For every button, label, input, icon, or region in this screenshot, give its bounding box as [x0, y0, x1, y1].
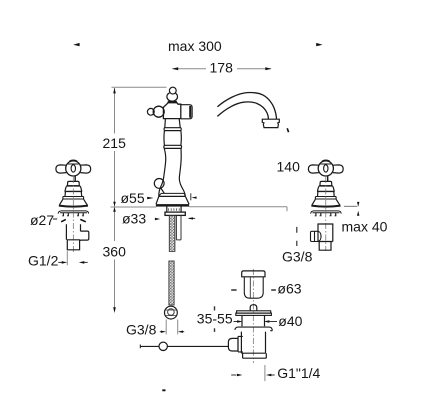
DRAIN: flange bottom plate — [236, 313, 272, 315]
MIXER: bell top — [159, 195, 186, 197]
right valve stem — [327, 176, 329, 181]
right valve bell base bar — [311, 206, 340, 207]
right valve hub — [318, 161, 333, 176]
RIGHT VALVE — [308, 160, 343, 216]
right valve top arm dome — [320, 160, 331, 164]
MIXER: taper below handle — [165, 119, 180, 128]
MIXER: collar — [164, 128, 181, 131]
svg-text:G3/8: G3/8 — [126, 322, 157, 338]
valve top arm — [68, 160, 79, 164]
MIXER: column taper — [159, 149, 186, 197]
right valve rosette — [311, 211, 342, 214]
dim ø55 left arrow — [147, 197, 153, 200]
valve bell — [59, 199, 87, 205]
MIXER: shank neck — [167, 207, 181, 213]
valve rosette ticks — [63, 213, 83, 216]
MIXER: popup rod — [176, 216, 181, 240]
dim arrows at deck — [113, 202, 116, 207]
dim G3/8 left extension lines — [166, 320, 178, 335]
svg-text:ø55: ø55 — [121, 190, 145, 206]
MIXER: vase — [164, 131, 181, 145]
deck line — [111, 205, 358, 208]
svg-text:G3/8: G3/8 — [282, 249, 313, 265]
svg-text:G1"1/4: G1"1/4 — [277, 365, 320, 381]
MIXER: shank neck threads — [169, 208, 180, 211]
right valve left arm — [308, 165, 318, 173]
right valve skirt — [318, 186, 335, 191]
dim ø40 left arrow — [234, 321, 238, 323]
LEFT VALVE tailpiece — [67, 240, 79, 250]
DRAIN: washer — [235, 327, 272, 331]
right valve bonnet lip — [319, 185, 332, 187]
MIXER: popup knob — [154, 179, 164, 189]
RIGHT VALVE elbow lower body — [318, 242, 333, 251]
dim ø55 right tick — [190, 193, 192, 200]
MIXER: handle right arm inner edge — [189, 106, 191, 118]
right valve rosette feet — [315, 215, 337, 217]
MIXER: hose nut bands — [165, 310, 177, 316]
MIXER: hose nut inner — [168, 309, 175, 316]
right valve skirt lip — [317, 190, 335, 192]
MIXER: flange — [165, 212, 185, 215]
arrow max300 right — [316, 43, 322, 46]
right valve rosette legs — [316, 213, 336, 216]
dim ø33 right arrow — [189, 217, 195, 219]
dim 178 arrow left — [172, 67, 178, 70]
right valve bonnet — [320, 181, 332, 185]
dim ø55 right dash — [191, 197, 196, 199]
MIXER: popup knob tail — [161, 188, 165, 193]
MIXER: bell rim — [159, 193, 185, 196]
LEVER: ball joint — [159, 342, 167, 350]
MIXER: finial large ball — [167, 92, 178, 101]
valve left arm — [56, 165, 66, 173]
svg-text:max 40: max 40 — [342, 219, 388, 235]
DRAIN: body — [241, 332, 265, 354]
deck line end tick — [286, 207, 288, 212]
dim G1"1/4 right arrow — [271, 374, 275, 376]
dim ø27 left arrowhead — [61, 219, 66, 221]
valve column — [65, 192, 82, 197]
valve rosette — [58, 211, 89, 214]
DRAIN: plug body — [244, 277, 263, 298]
MIXER: threaded stud — [169, 216, 175, 252]
valve hub — [66, 161, 81, 176]
right valve bell — [312, 199, 340, 205]
dim ø27 right arrowhead — [80, 219, 86, 221]
valve right arm — [80, 165, 90, 173]
dim 178 line left — [173, 68, 207, 70]
dim line vertical 215/360 — [114, 88, 116, 311]
DRAIN: plug cap — [242, 271, 265, 277]
tiny mark bottom — [162, 389, 165, 391]
RIGHT VALVE elbow body — [318, 224, 333, 242]
LEFT VALVE body — [66, 224, 80, 239]
DRAIN: center line — [252, 269, 254, 363]
arrow max300 left — [73, 43, 79, 46]
svg-text:ø40: ø40 — [278, 313, 302, 329]
right valve hub oval — [324, 165, 328, 172]
valve base plate — [63, 197, 84, 200]
right valve column — [318, 192, 335, 197]
valve center line left — [72, 177, 74, 252]
dim 360 arrow down — [113, 307, 116, 313]
LEVER: rod — [140, 345, 229, 347]
dim G1/2 left arrow — [58, 261, 62, 263]
dim max40 arrows — [357, 202, 359, 207]
MIXER: handle neck — [167, 101, 177, 103]
svg-text:215: 215 — [103, 135, 127, 151]
tiny mark right of spout — [287, 128, 288, 132]
dim 35-55 lower dash — [214, 328, 216, 332]
svg-text:ø63: ø63 — [277, 281, 301, 297]
dim ø63 dashes — [231, 289, 236, 291]
LEVER: rod end tick — [139, 345, 141, 349]
svg-text:G1/2: G1/2 — [28, 253, 59, 269]
MIXER: hose nut — [165, 306, 178, 319]
MIXER: handle right arm — [181, 105, 192, 119]
svg-text:35-55: 35-55 — [197, 310, 233, 326]
svg-text:max 300: max 300 — [168, 38, 222, 54]
dim 178 line right — [237, 68, 271, 70]
svg-text:140: 140 — [277, 159, 301, 175]
RIGHT VALVE elbow left port — [311, 231, 322, 241]
dim G1/2 extension — [66, 251, 68, 265]
dim ø27 dash — [53, 218, 57, 220]
SPOUT: upper curve — [217, 93, 276, 119]
valve bonnet lip — [67, 185, 80, 187]
dim G3/8 left arrows — [160, 331, 162, 333]
valve stem — [74, 176, 76, 181]
LEFT VALVE right port — [80, 231, 89, 240]
svg-text:ø27: ø27 — [30, 212, 54, 228]
valve center line right — [325, 177, 327, 251]
dim G1"1/4 left arrow — [231, 374, 236, 376]
dim G1/2 right arrow — [84, 261, 88, 263]
MIXER: bell flare — [156, 196, 189, 204]
valve bell base bar — [59, 206, 88, 207]
dim ø40 right arrow — [270, 321, 278, 323]
right valve right arm — [333, 165, 343, 173]
dim ø33 left dash-arrow — [155, 218, 160, 220]
MIXER: bell base bar — [156, 204, 189, 207]
DRAIN: plug inner line — [249, 277, 251, 298]
MIXER: handle left small ball — [147, 108, 154, 115]
DRAIN: knuckle plate — [238, 336, 243, 352]
DRAIN: knuckle cap — [228, 338, 238, 351]
right valve base plate — [315, 197, 336, 200]
dashed line near elbow — [296, 227, 298, 246]
DRAIN: knob on flange — [250, 305, 257, 311]
valve skirt lip — [65, 190, 83, 192]
dim G1"1/4 extension — [264, 365, 266, 381]
valve hub oval — [71, 165, 75, 172]
DRAIN: flange top plate — [237, 311, 271, 313]
valve skirt — [65, 186, 82, 191]
valve bonnet — [67, 181, 79, 185]
LEFT VALVE — [56, 160, 91, 216]
dim 178 arrow right — [265, 67, 271, 70]
dim 215 extension line top — [112, 86, 167, 88]
svg-text:360: 360 — [103, 244, 127, 260]
MIXER: finial small ball — [169, 87, 176, 94]
SPOUT: nozzle — [262, 119, 279, 127]
MIXER: vase ring — [164, 145, 182, 148]
MIXER: handle left ball — [153, 106, 164, 117]
MIXER: flexible hose — [169, 261, 174, 305]
dim 215 arrow up — [113, 88, 116, 94]
SPOUT: lower curve — [217, 102, 268, 119]
DRAIN: neck — [242, 316, 265, 327]
dim max40 extension — [344, 205, 356, 207]
dim 35-55 upper dash — [214, 306, 216, 310]
MIXER: handle block — [163, 103, 180, 119]
DRAIN: tail stub — [243, 353, 267, 358]
svg-text:178: 178 — [210, 60, 234, 76]
svg-text:ø33: ø33 — [122, 211, 146, 227]
